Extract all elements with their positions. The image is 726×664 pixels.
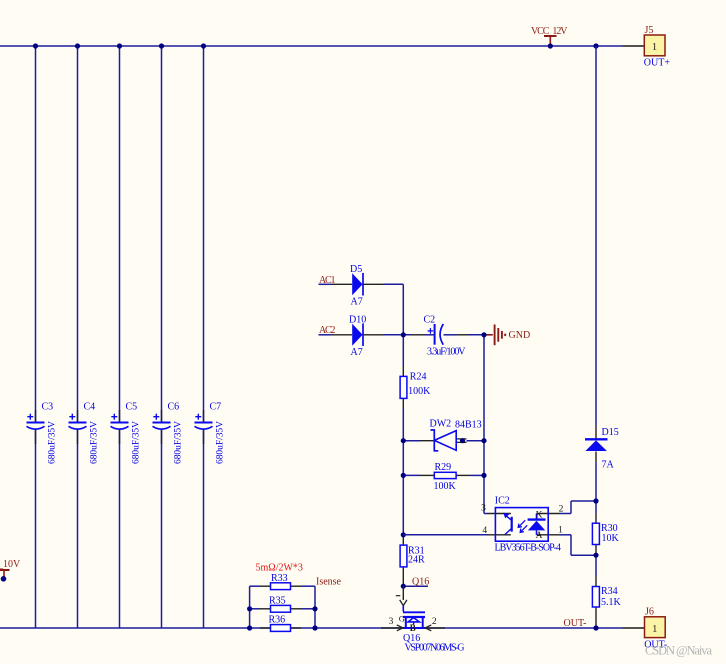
- wire C5 column: [119, 46, 121, 628]
- svg-text:CSDN @Naiva: CSDN @Naiva: [645, 644, 712, 658]
- svg-text:_10V: _10V: [0, 559, 21, 570]
- wire R33 row: [250, 585, 315, 587]
- svg-text:C2: C2: [424, 315, 436, 326]
- svg-text:A: A: [536, 531, 543, 541]
- svg-text:OUT+: OUT+: [644, 58, 671, 69]
- wire C3 column: [35, 46, 37, 628]
- wire R35 row: [250, 608, 315, 610]
- svg-text:24R: 24R: [408, 555, 425, 566]
- wire bottom bus: [0, 627, 623, 629]
- wire C6 column: [161, 46, 163, 628]
- capacitor C3: [27, 402, 58, 465]
- connector J5 pin 1: [623, 45, 645, 47]
- svg-text:680uF/35V: 680uF/35V: [90, 421, 100, 464]
- connector J5: [644, 25, 671, 69]
- capacitor C7: [195, 402, 226, 465]
- capacitor C2: [424, 315, 467, 358]
- wire AC1 row: [319, 283, 404, 285]
- wire R29 row: [403, 474, 484, 476]
- wire IC2 pin4: [403, 534, 511, 536]
- svg-text:5mΩ/2W*3: 5mΩ/2W*3: [256, 563, 303, 574]
- svg-text:J5: J5: [645, 25, 654, 36]
- power port VCC_12V: [531, 26, 568, 46]
- diode D10: [349, 315, 366, 359]
- wire left vertical x=403: [402, 284, 404, 586]
- svg-text:1: 1: [652, 624, 657, 635]
- svg-text:1: 1: [652, 42, 657, 53]
- svg-text:A7: A7: [351, 297, 363, 308]
- junction dots sense block: [247, 606, 318, 630]
- svg-text:DW2: DW2: [430, 419, 452, 430]
- svg-text:C6: C6: [168, 402, 180, 413]
- resistor R35: [269, 596, 291, 613]
- wire AC2 row: [319, 334, 485, 336]
- svg-text:3.3uF/100V: 3.3uF/100V: [427, 347, 466, 358]
- junction dots mid section: [401, 332, 487, 537]
- svg-text:VSP007N06MS-G: VSP007N06MS-G: [405, 643, 465, 654]
- capacitor C5: [111, 402, 142, 465]
- svg-text:R24: R24: [410, 371, 427, 382]
- op-amp U1 optocoupler IC2: [495, 496, 562, 554]
- svg-text:Q16: Q16: [412, 577, 429, 588]
- svg-text:J6: J6: [645, 607, 654, 618]
- svg-text:C5: C5: [126, 402, 138, 413]
- svg-text:3: 3: [481, 504, 486, 514]
- svg-text:84B13: 84B13: [455, 420, 482, 431]
- wire sense left vertical: [249, 586, 251, 628]
- svg-text:LBV356T-B-SOP-4: LBV356T-B-SOP-4: [495, 543, 562, 554]
- resistor R34: [592, 586, 621, 608]
- svg-text:R33: R33: [271, 573, 288, 584]
- resistor R29: [434, 462, 457, 492]
- svg-text:4: 4: [482, 526, 487, 536]
- svg-text:OUT-: OUT-: [564, 618, 587, 629]
- zener diode DW2: [430, 419, 482, 451]
- svg-text:R29: R29: [435, 462, 452, 473]
- svg-text:100K: 100K: [434, 481, 457, 492]
- Q16 pin 3: [381, 617, 403, 631]
- svg-text:C4: C4: [84, 402, 96, 413]
- svg-text:A7: A7: [351, 347, 363, 358]
- node Q16 gate stub: [401, 577, 430, 589]
- ground GND: [484, 325, 530, 346]
- resistor R33: [271, 573, 291, 590]
- svg-text:2: 2: [432, 617, 437, 627]
- svg-text:680uF/35V: 680uF/35V: [48, 421, 58, 464]
- capacitor C4: [69, 402, 100, 465]
- LED diode inside IC2: [528, 510, 546, 541]
- wire C4 column: [77, 46, 79, 628]
- capacitor C6: [153, 402, 184, 465]
- svg-text:IC2: IC2: [495, 496, 510, 507]
- wire DW2 row: [403, 439, 484, 442]
- resistor R31: [400, 545, 425, 567]
- diode D15: [585, 427, 619, 471]
- svg-text:C7: C7: [210, 402, 222, 413]
- svg-text:D10: D10: [349, 315, 366, 326]
- wire right vertical x=596: [595, 46, 597, 628]
- transistor inside IC2: [503, 513, 512, 535]
- svg-text:680uF/35V: 680uF/35V: [216, 421, 226, 464]
- svg-text:10K: 10K: [602, 533, 620, 544]
- resistor R24: [400, 371, 431, 398]
- wire IC2 pin1 to R30 bottom: [537, 535, 597, 555]
- junction dots on top bus: [33, 43, 599, 48]
- wire IC2 pin2 to R30 top: [537, 501, 597, 514]
- svg-text:K: K: [536, 510, 543, 520]
- Q16 pin 2: [425, 617, 445, 631]
- svg-text:100K: 100K: [408, 386, 431, 397]
- svg-text:R36: R36: [269, 615, 286, 626]
- svg-text:R35: R35: [269, 596, 286, 607]
- svg-text:C3: C3: [42, 402, 54, 413]
- svg-text:D15: D15: [602, 427, 619, 438]
- power port 10V: [0, 559, 21, 582]
- junction dots right vertical: [593, 498, 598, 630]
- svg-text:5.1K: 5.1K: [601, 597, 622, 608]
- svg-text:7A: 7A: [602, 460, 615, 471]
- svg-text:D5: D5: [350, 264, 362, 275]
- svg-text:G: G: [399, 613, 405, 623]
- svg-text:R34: R34: [601, 586, 618, 597]
- connector J6 pin 1: [623, 627, 645, 629]
- resistor R30: [592, 523, 619, 545]
- wire R36 row pins: [260, 627, 301, 629]
- resistor R36: [269, 615, 291, 632]
- svg-text:Isense: Isense: [316, 577, 342, 588]
- transistor Q16: [399, 606, 465, 654]
- svg-text:GND: GND: [509, 330, 531, 341]
- wire C7 column: [203, 46, 205, 628]
- diode D5: [350, 264, 363, 308]
- wire sense right vertical: [314, 586, 316, 628]
- Q16 gate pin with arrow: [396, 586, 407, 605]
- wire right-mid vertical x=484: [483, 335, 485, 514]
- wire top bus: [0, 45, 623, 47]
- svg-text:B: B: [410, 623, 416, 633]
- svg-text:1: 1: [558, 526, 563, 536]
- light arrows inside IC2: [518, 520, 527, 532]
- connector J6: [644, 607, 667, 651]
- svg-text:3: 3: [389, 617, 394, 627]
- svg-text:680uF/35V: 680uF/35V: [132, 421, 142, 464]
- svg-text:2: 2: [559, 505, 564, 515]
- svg-text:680uF/35V: 680uF/35V: [174, 421, 184, 464]
- wire IC2 pin3: [484, 513, 511, 515]
